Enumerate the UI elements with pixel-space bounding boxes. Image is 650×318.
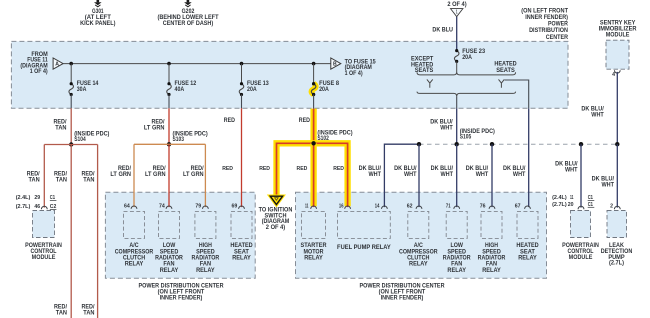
module powertrain control module (left) xyxy=(16,195,62,261)
svg-text:76: 76 xyxy=(480,203,486,209)
svg-text:WHT: WHT xyxy=(440,126,453,132)
svg-text:FAN: FAN xyxy=(451,262,462,268)
svg-text:TAN: TAN xyxy=(83,178,94,184)
svg-text:HIGH: HIGH xyxy=(199,243,212,249)
node bus junction fuse 13 xyxy=(240,62,244,66)
svg-text:FAN: FAN xyxy=(200,262,211,268)
svg-text:A: A xyxy=(55,62,59,68)
svg-text:INNER FENDER): INNER FENDER) xyxy=(381,296,424,302)
wire DK BLU/WHT sentry key module to splice S105 xyxy=(581,72,617,144)
svg-text:29: 29 xyxy=(34,195,40,201)
svg-text:WHT: WHT xyxy=(404,172,417,178)
svg-text:S102: S102 xyxy=(317,136,329,142)
svg-text:RELAY: RELAY xyxy=(196,268,215,274)
node S105 junction B xyxy=(455,142,459,146)
wire RED/LT GRN S103 to high speed radiator fan relay pin 79 xyxy=(183,144,205,207)
svg-text:KICK PANEL): KICK PANEL) xyxy=(80,21,115,27)
svg-text:MOTOR: MOTOR xyxy=(304,249,325,255)
wire DK BLU/WHT S105 to high speed radiator fan relay pin 76 xyxy=(466,144,492,207)
svg-text:S104: S104 xyxy=(74,137,86,143)
svg-text:40A: 40A xyxy=(175,87,185,93)
node S105 junction E xyxy=(615,142,619,146)
relay fuel pump pins 16 and 14 xyxy=(337,203,391,251)
svg-text:SPEED: SPEED xyxy=(447,249,466,255)
svg-text:CENTER OF DASH): CENTER OF DASH) xyxy=(163,21,213,27)
wire RED S102 header (highlighted) xyxy=(273,143,350,207)
svg-text:RADIATOR: RADIATOR xyxy=(443,256,471,262)
wire RED/TAN S104 header xyxy=(44,144,97,146)
wire RED/LT GRN S103 to low speed radiator fan relay pin 74 xyxy=(145,144,169,207)
svg-text:62: 62 xyxy=(407,203,413,209)
svg-text:COMPRESSOR: COMPRESSOR xyxy=(399,249,438,255)
in-line connector left (except heated seats) xyxy=(427,79,433,87)
svg-text:COMPRESSOR: COMPRESSOR xyxy=(115,249,154,255)
fuse F12 xyxy=(167,81,197,96)
wire RED/TAN fuse 14 to splice S104 xyxy=(54,95,72,145)
wire fuse 23 to option brace xyxy=(456,61,458,72)
relay starter motor pin 11 xyxy=(301,203,328,261)
svg-text:(ON LEFT FRONT: (ON LEFT FRONT xyxy=(521,8,568,14)
svg-text:RED: RED xyxy=(222,166,233,172)
svg-text:2: 2 xyxy=(610,204,613,210)
svg-text:RELAY: RELAY xyxy=(409,262,428,268)
wire DK BLU/WHT S105 to A/C compressor clutch relay pin 62 xyxy=(394,144,419,207)
svg-text:SEAT: SEAT xyxy=(234,249,249,255)
svg-text:(2.7L): (2.7L) xyxy=(16,204,31,210)
svg-text:RELAY: RELAY xyxy=(160,268,179,274)
svg-text:71: 71 xyxy=(446,203,451,209)
svg-text:WHT: WHT xyxy=(476,172,489,178)
label TO FUSE 15 (DIAGRAM 1 OF 4) xyxy=(345,59,377,76)
svg-text:S103: S103 xyxy=(173,137,185,143)
relay high speed radiator fan (right PDC) pin 76 xyxy=(478,203,506,274)
wire bus drop to fuse 8 xyxy=(313,64,315,84)
wire RED/TAN S104 down-page right xyxy=(82,145,98,318)
svg-text:RADIATOR: RADIATOR xyxy=(155,256,183,262)
splice S104 (inside PDC) xyxy=(69,131,109,146)
svg-text:67: 67 xyxy=(515,203,521,209)
svg-text:1 OF 4): 1 OF 4) xyxy=(345,71,363,77)
relay A/C compressor clutch (right PDC) pin 62 xyxy=(399,203,438,267)
wire RED/TAN S104 to PCM pin 29/46 xyxy=(27,145,45,208)
svg-text:20A: 20A xyxy=(247,87,257,93)
svg-text:SPEED: SPEED xyxy=(196,249,215,255)
svg-text:14: 14 xyxy=(375,203,380,209)
relay heated seat (left PDC) pin 69 xyxy=(230,203,253,261)
svg-text:DK BLU: DK BLU xyxy=(432,27,453,33)
svg-text:INNER FENDER): INNER FENDER) xyxy=(525,15,568,21)
svg-text:69: 69 xyxy=(232,203,238,209)
svg-text:STARTER: STARTER xyxy=(301,243,328,249)
svg-text:S105: S105 xyxy=(460,135,472,141)
fuse F23 xyxy=(454,49,485,63)
svg-text:WHT: WHT xyxy=(369,172,382,178)
node bus junction fuse 12 xyxy=(167,62,171,66)
svg-text:20A: 20A xyxy=(462,55,472,61)
node bus junction fuse 8 xyxy=(312,62,316,66)
svg-text:(2.7L): (2.7L) xyxy=(609,261,624,267)
svg-text:RED: RED xyxy=(333,166,344,172)
svg-text:RELAY: RELAY xyxy=(304,256,323,262)
svg-text:2 OF 4): 2 OF 4) xyxy=(266,225,285,231)
node S105 junction D xyxy=(579,142,583,146)
svg-text:TAN: TAN xyxy=(83,310,94,316)
svg-text:LOW: LOW xyxy=(450,243,463,249)
svg-text:WHT: WHT xyxy=(513,172,526,178)
svg-text:WHT: WHT xyxy=(565,167,578,173)
svg-text:WHT: WHT xyxy=(591,113,604,119)
svg-text:HEATED: HEATED xyxy=(494,62,517,68)
wire RED/LT GRN S103 header xyxy=(134,143,205,145)
power distribution center box (top) xyxy=(11,41,568,108)
fuse F8 (highlighted) xyxy=(311,81,339,96)
wire heated seats branch to pin 67 xyxy=(505,80,529,207)
svg-text:16: 16 xyxy=(339,203,344,209)
option brace lower xyxy=(417,92,516,97)
splice S105 (inside PDC) xyxy=(460,129,495,141)
in-line connector right (heated seats) xyxy=(499,79,505,87)
ground G301 (at left kick panel) xyxy=(80,0,115,27)
svg-text:LT GRN: LT GRN xyxy=(145,172,166,178)
power distribution center box (bottom left) xyxy=(105,192,255,301)
svg-text:(2.7L): (2.7L) xyxy=(552,202,567,208)
svg-text:WHT: WHT xyxy=(602,182,615,188)
wire RED fuse 13 to heated seat relay pin 69 xyxy=(222,95,241,208)
svg-text:SPEED: SPEED xyxy=(482,249,501,255)
svg-text:LT GRN: LT GRN xyxy=(144,126,165,132)
wire S105 internal bus (dashed) xyxy=(419,143,617,145)
relay A/C compressor clutch (left PDC) pin 64 xyxy=(115,203,154,267)
svg-text:TAN: TAN xyxy=(56,310,67,316)
svg-text:2 OF 4): 2 OF 4) xyxy=(447,2,466,8)
svg-text:WHT: WHT xyxy=(441,172,454,178)
svg-text:A/C: A/C xyxy=(129,243,139,249)
svg-text:RELAY: RELAY xyxy=(232,256,251,262)
svg-text:LOW: LOW xyxy=(163,243,176,249)
module powertrain control module (right) xyxy=(552,195,599,261)
svg-text:FAN: FAN xyxy=(486,262,497,268)
wire DK BLU from connector 1 to fuse 23 xyxy=(432,17,456,51)
svg-text:20A: 20A xyxy=(319,87,329,93)
node bus junction fuse 14 xyxy=(69,62,73,66)
svg-text:MODULE: MODULE xyxy=(569,255,593,261)
svg-text:HEATED: HEATED xyxy=(516,243,539,249)
svg-text:SEATS: SEATS xyxy=(496,68,515,74)
svg-text:FUEL PUMP RELAY: FUEL PUMP RELAY xyxy=(337,245,391,251)
splice S102 (inside PDC) xyxy=(311,130,352,145)
arrow TO IGNITION SWITCH (DIAGRAM 2 OF 4) xyxy=(259,196,293,231)
option brace upper xyxy=(417,72,516,75)
svg-text:(2.4L): (2.4L) xyxy=(16,195,31,201)
svg-text:INNER FENDER): INNER FENDER) xyxy=(160,296,203,302)
svg-text:CLUTCH: CLUTCH xyxy=(407,256,429,262)
wire bus drop to fuse 14 xyxy=(70,64,72,84)
svg-text:SPEED: SPEED xyxy=(160,249,179,255)
wire bus from triangle A to triangle B xyxy=(63,63,331,65)
svg-text:RED: RED xyxy=(259,166,270,172)
svg-text:CLUTCH: CLUTCH xyxy=(123,256,145,262)
svg-text:79: 79 xyxy=(195,203,201,209)
svg-text:RELAY: RELAY xyxy=(482,268,501,274)
label FROM FUSE 11 (DIAGRAM 1 OF 4) xyxy=(20,52,48,75)
svg-text:DISTRIBUTION: DISTRIBUTION xyxy=(529,28,568,34)
svg-text:11: 11 xyxy=(570,195,574,201)
svg-text:FAN: FAN xyxy=(163,262,174,268)
svg-text:POWER: POWER xyxy=(548,22,569,28)
wire RED/LT GRN fuse 12 to splice S103 xyxy=(144,95,169,145)
svg-text:HIGH: HIGH xyxy=(485,243,498,249)
svg-text:TAN: TAN xyxy=(29,178,40,184)
ground G202 (behind lower left center of dash) xyxy=(158,0,219,27)
fuse F13 xyxy=(239,81,269,96)
wire bus drop to fuse 13 xyxy=(241,64,243,84)
wire RED fuse 8 inside PDC segment xyxy=(299,95,314,125)
module leak detection pump pin 2 xyxy=(601,204,633,267)
svg-text:RED: RED xyxy=(297,166,308,172)
svg-text:B: B xyxy=(333,62,337,68)
svg-text:46: 46 xyxy=(34,204,40,210)
node S105 junction C xyxy=(490,142,494,146)
wire bus drop to fuse 12 xyxy=(168,64,170,84)
svg-text:A/C: A/C xyxy=(414,243,424,249)
wire DK BLU/WHT S105 to leak detection pump pin 2 xyxy=(592,144,618,207)
wire RED fuse 8 to splice S102 (highlighted) xyxy=(310,109,316,144)
svg-text:MODULE: MODULE xyxy=(32,255,56,261)
svg-text:74: 74 xyxy=(159,203,165,209)
connector triangle A (from fuse 11) xyxy=(53,58,63,69)
svg-text:LT GRN: LT GRN xyxy=(110,172,131,178)
wire DK BLU/WHT from brace to splice S105 xyxy=(430,97,456,145)
svg-text:RELAY: RELAY xyxy=(125,262,144,268)
wire DK BLU/WHT S105 to PCM pin 11/20 xyxy=(555,144,581,207)
svg-text:RED: RED xyxy=(224,118,236,124)
wire RED/LT GRN S103 to A/C compressor clutch relay pin 64 xyxy=(110,144,134,207)
relay low speed radiator fan (left PDC) pin 74 xyxy=(155,203,183,274)
connector triangle B (to fuse 15) xyxy=(331,58,341,69)
svg-text:TAN: TAN xyxy=(55,126,66,132)
svg-text:1: 1 xyxy=(456,9,458,15)
svg-text:HEATED: HEATED xyxy=(230,243,253,249)
label (ON LEFT FRONT INNER FENDER) POWER DISTRIBUTION CENTER top right xyxy=(521,8,568,40)
svg-text:LT GRN: LT GRN xyxy=(183,172,204,178)
svg-text:(2.4L): (2.4L) xyxy=(552,195,567,201)
power distribution center box (bottom right) xyxy=(296,192,547,301)
svg-text:30A: 30A xyxy=(77,87,87,93)
relay heated seat (right PDC) pin 67 xyxy=(515,203,540,261)
wire DK BLU/WHT S105 to fuel pump relay pin 14 xyxy=(359,144,419,207)
wire DK BLU/WHT S105 to low speed radiator fan relay pin 71 xyxy=(431,144,457,207)
relay low speed radiator fan (right PDC) pin 71 xyxy=(443,203,471,274)
module sentry key immobilizer xyxy=(599,20,638,78)
svg-text:11: 11 xyxy=(305,203,309,209)
svg-text:RELAY: RELAY xyxy=(518,256,537,262)
svg-text:RADIATOR: RADIATOR xyxy=(478,256,506,262)
svg-text:RED: RED xyxy=(299,118,311,124)
svg-text:TAN: TAN xyxy=(56,178,67,184)
svg-text:1 OF 4): 1 OF 4) xyxy=(30,69,48,75)
svg-text:RADIATOR: RADIATOR xyxy=(192,256,220,262)
svg-text:64: 64 xyxy=(124,203,130,209)
node S105 junction A xyxy=(417,142,421,146)
wire RED/TAN S104 down-page middle xyxy=(54,145,71,318)
svg-text:SEAT: SEAT xyxy=(520,249,535,255)
svg-text:RELAY: RELAY xyxy=(447,268,466,274)
relay high speed radiator fan (left PDC) pin 79 xyxy=(192,203,220,274)
svg-text:20: 20 xyxy=(568,202,574,208)
splice S103 (inside PDC) xyxy=(167,131,208,146)
svg-text:MODULE: MODULE xyxy=(606,32,630,38)
off-page connector triangle 1 (2 OF 4) xyxy=(447,2,466,16)
svg-text:CENTER: CENTER xyxy=(546,35,569,41)
fuse F14 xyxy=(69,81,99,96)
